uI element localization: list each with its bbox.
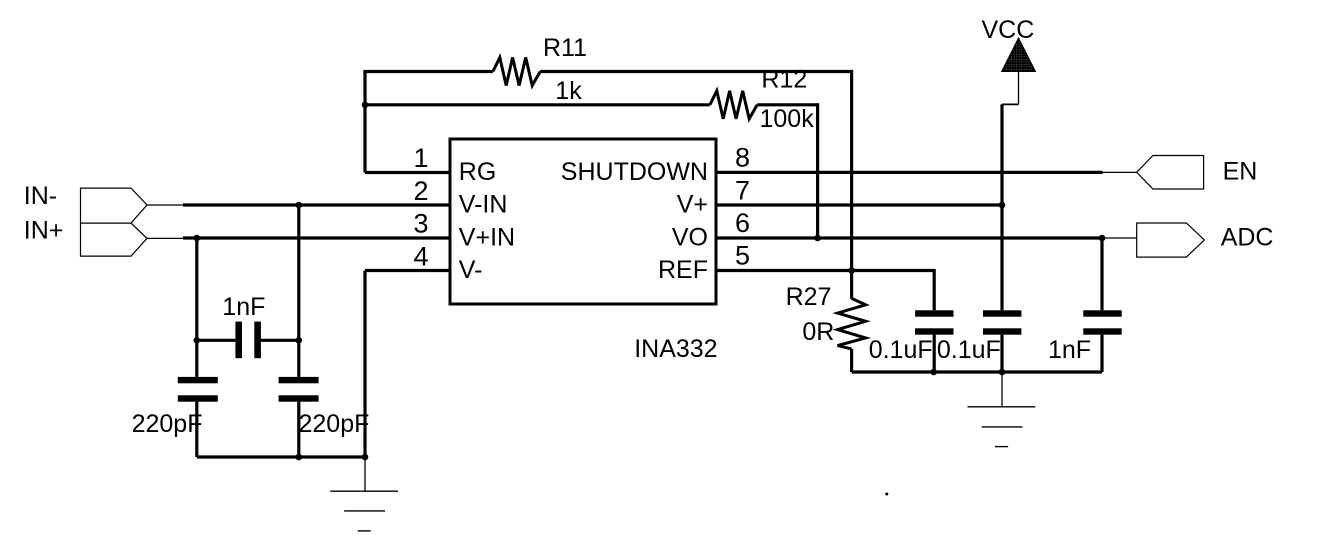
node: junction rail at V- column (362, 454, 369, 461)
wire: pin5 REF wire (716, 269, 934, 272)
capacitor C1 1nF plates (235, 322, 242, 359)
capacitor C4 bottom lead (933, 335, 936, 372)
node: junction rail at C4 (930, 369, 937, 376)
node: junction REF at R27 column (848, 267, 855, 274)
wire: RG vertical riser (363, 72, 366, 173)
node: junction VO at ADC/1nF (1099, 235, 1106, 242)
wire: VCC jog (1002, 103, 1019, 105)
wire: EN thin lead (1103, 171, 1137, 173)
svg-text:1nF: 1nF (1048, 336, 1091, 364)
svg-text:V-: V- (459, 256, 483, 284)
connector ADC body (1137, 223, 1205, 257)
op-amp U1 INA332 body (450, 139, 716, 304)
wire: R11 left segment (363, 70, 493, 73)
node: junction R12 to VO wire (814, 235, 821, 242)
wire: R12 vertical down to VO (816, 103, 819, 238)
svg-text:1: 1 (413, 143, 428, 173)
wire: 220pF right bottom lead (297, 402, 300, 457)
resistor R27 (838, 298, 866, 349)
capacitor C5 0.1uF plates (983, 310, 1021, 316)
svg-text:5: 5 (735, 240, 750, 270)
svg-text:8: 8 (735, 142, 750, 172)
svg-text:ADC: ADC (1221, 223, 1274, 251)
capacitor C5 bottom lead (1000, 335, 1003, 372)
svg-text:INA332: INA332 (634, 335, 717, 363)
wire: vertical from R11 down to REF (850, 70, 853, 271)
node: junction V+ VCC (999, 202, 1006, 209)
node: junction 1nF left (194, 337, 201, 344)
node: junction rail at IN- branch (296, 454, 303, 461)
svg-text:V+: V+ (677, 191, 708, 219)
svg-text:IN-: IN- (24, 182, 57, 210)
power VCC triangle (1002, 38, 1036, 71)
svg-text:220pF: 220pF (132, 410, 203, 438)
svg-text:3: 3 (413, 208, 428, 238)
wire: R12 left segment (365, 103, 710, 106)
svg-text:0R: 0R (802, 318, 834, 346)
svg-text:VO: VO (672, 224, 708, 252)
svg-text:4: 4 (413, 242, 428, 272)
svg-text:EN: EN (1223, 158, 1258, 186)
svg-text:220pF: 220pF (299, 410, 370, 438)
capacitor C4 0.1uF plates (915, 310, 953, 316)
svg-text:RG: RG (459, 158, 497, 186)
wire: VCC thin stem (1018, 71, 1020, 104)
resistor R12 (710, 91, 757, 119)
svg-text:7: 7 (735, 176, 750, 206)
ground symbol left stem (364, 457, 366, 491)
capacitor C3 220pF right plates (279, 377, 319, 383)
wire: V- vertical down to ground rail (363, 271, 366, 458)
svg-text:R27: R27 (786, 283, 832, 311)
wire: pin8 SHUTDOWN to EN (716, 171, 1103, 174)
stray mark (885, 493, 888, 496)
capacitor C6 1nF plates (1083, 310, 1121, 316)
wire: right ground rail (852, 370, 1102, 373)
capacitor C2 220pF left plates (178, 377, 218, 383)
svg-text:2: 2 (413, 176, 428, 206)
ground symbol right bars (968, 406, 1036, 408)
svg-text:1k: 1k (555, 77, 582, 105)
resistor R11 (493, 58, 540, 86)
capacitor C4 0.1uF top lead (933, 269, 936, 310)
capacitor C1 1nF right lead (261, 339, 299, 342)
svg-text:IN+: IN+ (24, 216, 64, 244)
wire: VCC thick column (1000, 104, 1003, 310)
wire: pin1 RG stub (365, 171, 450, 174)
wire: R11 right segment to riser (540, 70, 851, 73)
svg-text:VCC: VCC (982, 16, 1035, 44)
svg-text:6: 6 (735, 208, 750, 238)
wire: IN+ branch vertical (195, 238, 198, 377)
svg-text:SHUTDOWN: SHUTDOWN (561, 158, 708, 186)
capacitor C6 1nF top lead (1100, 238, 1103, 310)
ground symbol right stem (1001, 372, 1003, 407)
node: junction rail at VCC column (999, 369, 1006, 376)
wire: pin6 VO to ADC (716, 236, 1102, 239)
wire: IN+ thin lead (147, 237, 183, 239)
svg-text:REF: REF (658, 256, 708, 284)
svg-text:0.1uF: 0.1uF (869, 336, 933, 364)
connector EN body (1137, 156, 1204, 190)
svg-text:V-IN: V-IN (459, 191, 508, 219)
ground symbol left bars (330, 490, 398, 492)
wire: IN- branch vertical (297, 205, 300, 377)
wire: IN+ to pin3 (183, 236, 450, 239)
node: junction 1nF right (296, 337, 303, 344)
wire: left ground rail (197, 455, 365, 458)
capacitor C6 bottom lead (1100, 335, 1103, 372)
wire: pin4 V- stub (365, 269, 450, 272)
resistor R27 upper lead (850, 271, 853, 299)
wire: pin7 V+ to VCC column (716, 203, 1002, 206)
wire: ADC thin lead (1102, 237, 1137, 239)
wire: 220pF left bottom lead (195, 402, 198, 457)
wire: R12 right segment (757, 103, 817, 106)
svg-text:R12: R12 (761, 65, 807, 93)
node: junction R12 on riser (362, 102, 369, 109)
wire: IN- to pin2 (183, 203, 450, 206)
connector J1 IN-/IN+ body (81, 188, 148, 256)
resistor R27 lower lead (850, 349, 853, 372)
capacitor C1 1nF left lead (197, 339, 236, 342)
svg-text:1nF: 1nF (222, 293, 265, 321)
wire: IN- thin lead (147, 204, 183, 206)
svg-text:R11: R11 (543, 34, 587, 62)
svg-text:0.1uF: 0.1uF (937, 336, 1001, 364)
svg-text:100k: 100k (760, 105, 815, 133)
node: junction IN+ branch (194, 235, 201, 242)
svg-text:V+IN: V+IN (459, 224, 515, 252)
node: junction IN- branch (296, 202, 303, 209)
